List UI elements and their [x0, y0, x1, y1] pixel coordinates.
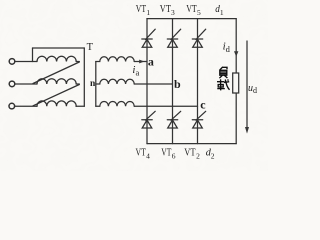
wire delta diagonal 2: [33, 85, 79, 106]
wire input phase 1: [15, 61, 37, 63]
label fuzai (load) character zai: [217, 79, 230, 90]
thyristor VT4: [142, 111, 155, 128]
primary winding 3: [37, 101, 76, 106]
wire input phase 2: [15, 83, 37, 85]
wire leg 3: [197, 19, 199, 144]
terminal circle 3: [9, 103, 15, 109]
current arrow ia head: [139, 60, 144, 64]
terminal circle 2: [9, 81, 15, 87]
secondary winding a: [96, 57, 134, 62]
thyristor VT3: [167, 29, 180, 47]
wire delta diagonal 1: [33, 62, 79, 84]
wire right side output: [235, 19, 237, 144]
voltage arrow ud: [246, 41, 248, 128]
wire delta top: [33, 47, 85, 49]
primary winding 1: [37, 56, 76, 61]
thyristor VT1: [142, 29, 155, 47]
wire phase b: [134, 83, 172, 85]
load resistor box: [233, 73, 239, 93]
primary winding 2: [37, 79, 76, 84]
wire phase c: [134, 105, 197, 107]
wire delta top-left riser: [32, 48, 34, 62]
wire phase a: [134, 61, 147, 63]
wire leg 2: [172, 19, 174, 144]
wire delta stub 2: [76, 83, 79, 85]
wire delta bottom stub: [76, 105, 84, 107]
top bus d1: [147, 18, 236, 20]
node n neutral bus: [95, 62, 97, 107]
bottom bus d2: [147, 143, 236, 145]
wire input phase 3: [15, 105, 38, 107]
wire delta stub 1: [76, 61, 79, 63]
secondary winding c: [96, 102, 134, 107]
secondary winding b: [96, 79, 134, 84]
current arrow id head: [234, 51, 238, 56]
terminal circle 1: [9, 59, 15, 65]
scan paper grain: [0, 0, 268, 171]
wire delta right side: [83, 48, 85, 106]
label fuzai (load) character fu: [219, 67, 227, 78]
thyristor VT2: [192, 111, 205, 128]
thyristor VT6: [167, 111, 180, 128]
thyristor VT5: [192, 29, 205, 47]
wire leg 1: [146, 19, 148, 144]
